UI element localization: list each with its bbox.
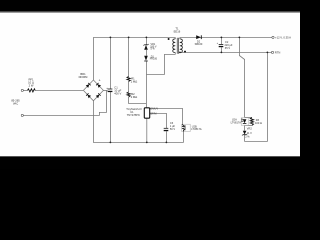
optocoupler U2B [182,124,190,131]
svg-text:VAC: VAC [13,101,18,105]
primary winding [173,39,176,53]
resistor R3 [250,118,253,126]
svg-text:DF06M: DF06M [79,75,89,79]
resistor R2 [127,92,130,97]
wire drain [145,74,147,107]
svg-text:TinySwitch-III: TinySwitch-III [126,107,141,111]
terminal +12V output [272,36,274,38]
wire LED R3 ties [245,116,252,118]
terminal RTN output [271,51,273,53]
wire BP to C3 [150,113,167,128]
svg-text:2 %: 2 % [245,135,250,139]
capacitor C3 [164,128,169,131]
wire clamp to primary bottom [146,54,175,74]
wire R1 R2 branch [128,37,130,76]
wire AC neutral input [23,90,106,115]
svg-text:2 MΩ: 2 MΩ [131,95,138,99]
svg-text:100 Ω: 100 Ω [255,121,262,125]
terminal AC neutral [21,114,23,116]
svg-text:+12 V, 0.35 A: +12 V, 0.35 A [275,35,291,39]
wire U1 source to ground rail [146,118,148,142]
transformer core [176,38,178,54]
wire secondary ground return [245,52,268,141]
bridge rectifier BR1 [83,80,103,101]
svg-text:2 MΩ: 2 MΩ [131,79,138,83]
svg-text:FR106: FR106 [150,58,158,61]
capacitor C1 [108,89,113,92]
svg-text:VR2: VR2 [247,126,253,130]
resistor R1 [127,77,130,82]
svg-text:RTN: RTN [275,51,281,55]
wire transformer secondary stubs [179,37,181,39]
wire RTN rail [180,51,272,53]
wire transformer primary top stub [174,37,176,39]
wire bridge plus stub to C1 [103,89,108,91]
svg-text:BP/M: BP/M [150,112,156,115]
capacitor C2 [219,44,224,47]
diode D2 [196,35,201,39]
corner dot secondary return [179,52,181,54]
svg-text:EN/UV: EN/UV [150,108,158,111]
wire clamp branch [145,37,147,44]
wire top rail secondary [180,36,272,38]
svg-text:SB160: SB160 [195,42,203,46]
zener VR1 [143,44,148,50]
wire EN to optocoupler [150,108,183,124]
wire feedback drop from +12V [239,37,244,117]
wire C1 branch [109,37,111,89]
svg-text:2 W: 2 W [29,84,34,88]
primary phase dot [168,38,170,40]
svg-text:LTV817A: LTV817A [191,127,202,131]
zener VR2 [242,131,247,136]
svg-text:35 V: 35 V [225,46,231,50]
junction dots [110,37,269,144]
secondary winding [180,39,183,53]
resistor RF1 [28,89,36,92]
terminal AC live [21,89,23,91]
svg-text:400 V: 400 V [114,91,121,95]
svg-text:TNY278PN: TNY278PN [127,113,140,117]
secondary phase dot [184,51,186,53]
letterbox top bar [0,0,300,11]
svg-text:LTV817A: LTV817A [231,121,242,125]
wire AC live input [23,89,27,91]
wire bridge top feed [92,37,94,80]
svg-text:EE16: EE16 [174,30,181,34]
letterbox bottom bar [0,157,300,169]
wire VR2 link [244,125,246,130]
optocoupler U2A LED [241,118,248,125]
svg-text:11 V: 11 V [247,131,252,135]
IC U1 TNY278 [144,108,149,118]
transformer T1 [173,39,183,53]
wire primary ground rail [93,100,183,142]
wire top rail primary [93,36,175,38]
svg-text:50 V: 50 V [170,127,176,131]
wire C2 branch [220,37,222,44]
svg-text:+: + [99,78,101,82]
diode D1 [144,56,148,61]
